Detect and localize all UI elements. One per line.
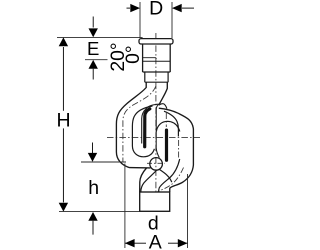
body outline right ceiling and side xyxy=(159,108,194,192)
centerline outlet sweep xyxy=(156,168,183,193)
centerline ascending channel above partition xyxy=(165,113,167,127)
svg-text:E: E xyxy=(87,38,99,59)
svg-text:h: h xyxy=(88,177,99,199)
svg-text:0°: 0° xyxy=(122,45,144,64)
socket body xyxy=(143,44,171,72)
overflow arch xyxy=(156,121,180,131)
svg-text:H: H xyxy=(56,110,70,132)
circle outlet edge xyxy=(159,169,172,182)
svg-text:A: A xyxy=(149,232,162,250)
inner ceiling right lobe xyxy=(164,111,178,136)
dimension A line xyxy=(125,242,188,244)
neck step1 bottom xyxy=(145,81,168,83)
socket bottom shoulder xyxy=(143,71,171,73)
dimension A extension lines xyxy=(125,164,188,249)
centerline curved inlet-to-left-channel xyxy=(123,86,156,163)
dimension h top arrow xyxy=(92,143,94,154)
centerline vertical main axis xyxy=(155,33,157,211)
partition dip tube hook edge xyxy=(142,104,160,143)
centerline circle cross xyxy=(147,162,165,164)
dimension D extension lines xyxy=(140,2,172,38)
middle channel right wall xyxy=(156,104,159,150)
dimension H bottom arrow xyxy=(59,203,68,212)
cleanout circle xyxy=(150,158,163,171)
dimension h top line xyxy=(81,161,126,163)
dimension h bottom arrow xyxy=(88,212,97,221)
dimension A right arrow xyxy=(178,239,188,247)
dimension E top line xyxy=(57,36,143,38)
dimension A left arrow xyxy=(125,239,135,247)
centerline right channel xyxy=(178,140,180,158)
funnel left outer xyxy=(140,168,147,192)
funnel right inner xyxy=(159,159,180,192)
dimension E top arrow xyxy=(92,17,94,28)
socket seal line xyxy=(143,58,157,59)
inlet right wall xyxy=(159,82,167,104)
body outline left xyxy=(116,82,150,168)
dimension H line xyxy=(62,47,64,202)
funnel left inner xyxy=(141,170,157,192)
inner wall left channel with U-turn xyxy=(132,106,154,157)
dimension E bottom arrow xyxy=(89,60,98,69)
dimension H top arrow xyxy=(59,37,68,46)
baseline bottom extension xyxy=(59,211,140,213)
junction beak xyxy=(159,104,167,109)
svg-text:D: D xyxy=(149,0,163,20)
middle channel fork to circle xyxy=(156,149,159,158)
socket inner line xyxy=(143,60,171,62)
socket collar xyxy=(139,39,173,44)
dimension D arrows xyxy=(127,7,131,9)
dimension E bottom line xyxy=(85,59,108,61)
partition dip tube wall xyxy=(145,109,150,147)
outlet stub xyxy=(140,192,170,211)
partition right wall xyxy=(165,130,168,160)
centerline horizontal body axis xyxy=(107,136,200,138)
neck step1 sides xyxy=(145,72,168,82)
